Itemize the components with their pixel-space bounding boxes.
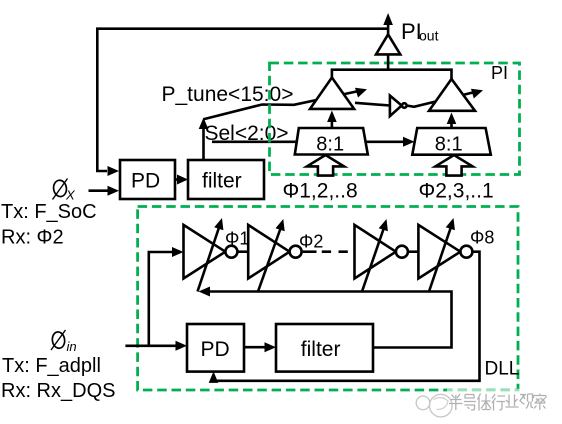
wire rail joining amp outputs bbox=[332, 70, 452, 79]
watermark halo bbox=[447, 389, 551, 415]
svg-text:out: out bbox=[419, 28, 439, 44]
wire stage1 to stage2 bbox=[237, 250, 248, 253]
mux 8:1 right bbox=[412, 128, 491, 155]
wire dashed omitted stages bbox=[303, 250, 355, 253]
wire P_tune bus into left interpolator amp (variable arrow) bbox=[204, 88, 368, 120]
svg-text:Φ1,2,..8: Φ1,2,..8 bbox=[283, 180, 358, 203]
op-amp left interpolator amp bbox=[310, 78, 354, 109]
wire inverter output into right amp (variable arrow) bbox=[407, 89, 483, 107]
buffer PIout bbox=[376, 13, 400, 70]
char ye bbox=[506, 395, 519, 408]
svg-text:Φ1: Φ1 bbox=[225, 229, 249, 249]
PD box (top loop) bbox=[120, 160, 175, 199]
wire arrow from left mux into left amp bbox=[327, 111, 337, 129]
label PIout bbox=[401, 19, 439, 44]
wire phi_in into DLL PD and delay line bbox=[125, 247, 187, 351]
char guan bbox=[520, 394, 533, 409]
wire stage3 to stage4 bbox=[408, 250, 419, 253]
svg-text:PD: PD bbox=[131, 170, 160, 193]
watermark logo circles bbox=[416, 394, 452, 417]
delay stage 1 inverter bbox=[184, 225, 238, 279]
op-amp right interpolator amp bbox=[429, 79, 475, 111]
wire PD to filter arrow bbox=[175, 175, 188, 185]
inverter between amps bbox=[355, 96, 407, 117]
variable arrow through stage 3 bbox=[362, 219, 388, 292]
char xing bbox=[492, 394, 505, 411]
PI dashed box bbox=[270, 63, 520, 175]
delay stage 2 inverter bbox=[248, 225, 301, 279]
block arrow input right mux bbox=[435, 155, 472, 176]
svg-text:filter: filter bbox=[301, 338, 341, 361]
wire DLL PD to filter arrow bbox=[244, 342, 276, 352]
node phi_X input label bbox=[53, 179, 77, 203]
wire control line from DLL filter to stages bbox=[199, 287, 452, 348]
variable arrow through stage 1 bbox=[198, 218, 224, 292]
svg-text:Φ2,3,..1: Φ2,3,..1 bbox=[419, 180, 494, 203]
wire phi_X arrow into PD bbox=[89, 186, 120, 196]
variable arrow through stage 4 bbox=[429, 218, 455, 292]
mux 8:1 left bbox=[295, 128, 368, 155]
variable arrow through stage 2 bbox=[258, 219, 285, 292]
svg-text:in: in bbox=[67, 339, 77, 354]
svg-text:Φ2: Φ2 bbox=[299, 232, 323, 252]
svg-text:filter: filter bbox=[202, 170, 242, 193]
svg-text:PD: PD bbox=[201, 338, 230, 361]
wire Sel into left mux bbox=[212, 141, 297, 144]
svg-text:Φ8: Φ8 bbox=[470, 228, 494, 248]
svg-text:DLL: DLL bbox=[485, 358, 520, 379]
svg-text:Rx: Φ2: Rx: Φ2 bbox=[1, 227, 64, 249]
svg-text:8:1: 8:1 bbox=[316, 133, 344, 155]
svg-text:Rx: Rx_DQS: Rx: Rx_DQS bbox=[1, 380, 115, 402]
svg-text:P_tune<15:0>: P_tune<15:0> bbox=[162, 83, 294, 106]
char cha bbox=[534, 394, 547, 411]
wire feedback loop from stage 4 to PD bbox=[209, 252, 480, 383]
char ban bbox=[449, 394, 463, 410]
svg-text:8:1: 8:1 bbox=[435, 133, 463, 155]
delay stage 3 inverter bbox=[355, 225, 408, 279]
svg-text:Tx: F_adpll: Tx: F_adpll bbox=[2, 355, 101, 377]
PD box (DLL) bbox=[187, 324, 244, 372]
block arrow input left mux bbox=[307, 155, 344, 176]
svg-text:Tx: F_SoC: Tx: F_SoC bbox=[1, 201, 97, 223]
watermark text (hanzi strokes) bbox=[449, 394, 546, 411]
wire filter to P_tune with up arrow bbox=[199, 118, 209, 161]
filter box (top loop) bbox=[188, 160, 264, 199]
filter box (DLL) bbox=[276, 324, 373, 372]
char dao bbox=[464, 395, 476, 411]
wire left mux to right mux arrow bbox=[366, 137, 415, 147]
svg-text:PI: PI bbox=[491, 63, 508, 83]
node phi_in input label bbox=[51, 330, 77, 354]
wire arrow from right mux into right amp bbox=[447, 113, 457, 129]
DLL dashed box bbox=[138, 207, 518, 391]
wire feedback from PIout to PD top input bbox=[97, 29, 388, 176]
delay stage 4 inverter bbox=[418, 225, 472, 279]
char ti bbox=[478, 394, 492, 411]
